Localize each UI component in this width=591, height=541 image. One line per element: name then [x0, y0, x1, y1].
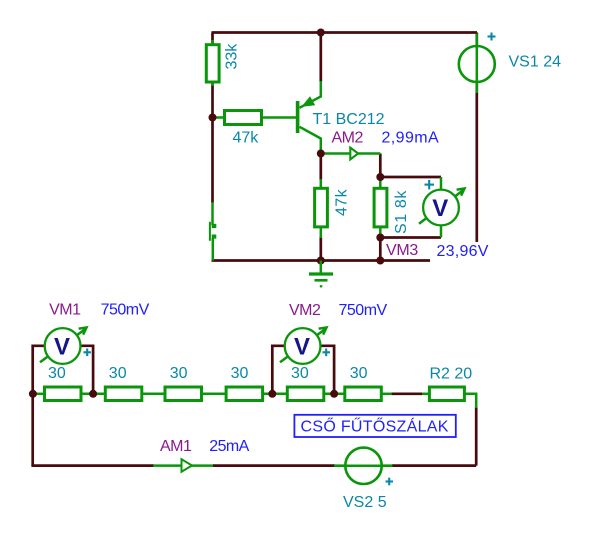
svg-text:AM2: AM2	[332, 130, 364, 147]
wire between resistor 1 and resistor 2	[81, 393, 106, 396]
node bottom left junction	[29, 390, 37, 398]
resistor R 47k vertical	[315, 188, 351, 227]
wire VM2 left branch	[272, 346, 285, 394]
wire voltmeter VM3 top lead	[440, 177, 443, 192]
svg-text:V: V	[294, 334, 310, 361]
wire AM2 corner down	[379, 154, 382, 181]
wire below 47k vertical resistor	[319, 237, 322, 261]
wire collector to node maroon	[319, 155, 322, 181]
node S1 top junction	[376, 173, 384, 181]
wire before resistor R2	[421, 393, 430, 396]
wire right vertical green top	[464, 394, 476, 408]
svg-text:30: 30	[109, 365, 127, 382]
svg-text:VS2 5: VS2 5	[343, 494, 387, 511]
wire below S1	[379, 236, 382, 261]
ammeter AM1	[160, 438, 250, 472]
svg-text:2,99mA: 2,99mA	[382, 130, 440, 147]
resistor 30 fifth	[287, 365, 324, 401]
svg-text:30: 30	[291, 365, 309, 382]
node S1 rail junction	[376, 257, 384, 265]
svg-text:23,96V: 23,96V	[437, 243, 489, 260]
node VM2 left junction	[268, 390, 276, 398]
wire between resistor 3 and resistor 4	[201, 393, 227, 396]
resistor R 33k	[206, 43, 240, 82]
svg-text:47k: 47k	[233, 130, 260, 147]
wire node A to first resistor	[33, 393, 45, 396]
wire S1 bottom lead	[379, 225, 382, 238]
voltage source VS1	[459, 33, 561, 94]
svg-text:V: V	[432, 195, 448, 222]
wire left vertical middle	[211, 81, 214, 203]
transistor T1 BC212	[296, 96, 385, 133]
wire right vertical maroon	[475, 407, 478, 466]
wire VS2 green lead	[334, 464, 393, 467]
wire bottom rail right maroon	[392, 464, 476, 467]
wire left vertical upper	[211, 33, 214, 47]
wire VM1 right branch	[81, 346, 94, 394]
wire 47k vertical top lead	[320, 179, 323, 190]
node S1 bottom junction	[376, 234, 384, 242]
svg-text:AM1: AM1	[160, 438, 192, 455]
resistor 30 sixth	[345, 365, 382, 401]
node collector junction	[317, 150, 325, 158]
svg-text:33k: 33k	[224, 43, 241, 70]
voltmeter VM3 meter symbol	[386, 180, 489, 260]
node top rail junction	[317, 29, 325, 37]
ammeter AM2 arrow symbol	[332, 130, 440, 160]
wire 47k vertical bottom lead	[320, 225, 323, 238]
wire 33k resistor top lead	[211, 40, 214, 46]
svg-text:R2 20: R2 20	[430, 366, 473, 383]
resistor 30 fourth	[226, 365, 263, 401]
wire top rail	[212, 31, 478, 34]
wire collector lead green	[300, 127, 321, 155]
wire right vertical from VS1 down	[475, 33, 478, 243]
wire S1 top lead	[379, 179, 382, 190]
svg-text:T1 BC212: T1 BC212	[313, 111, 385, 128]
wire bottom rail middle maroon	[213, 464, 335, 467]
svg-text:25mA: 25mA	[209, 438, 249, 455]
wire left branch of bottom circuit	[33, 346, 45, 466]
resistor 30 first	[45, 365, 82, 401]
svg-text:30: 30	[170, 365, 188, 382]
voltage source VS2	[334, 448, 393, 511]
wire 33k resistor bottom lead	[211, 80, 214, 86]
resistor R2 20	[429, 366, 472, 401]
wire voltmeter top branch	[380, 176, 441, 179]
wire emitter vertical maroon	[319, 33, 322, 83]
wire base lead green left	[214, 116, 225, 119]
svg-text:VM1: VM1	[49, 302, 81, 319]
node ground junction	[317, 257, 325, 265]
wire base lead green right	[261, 116, 296, 119]
wire plain maroon segment between R6 and R2	[392, 392, 422, 395]
voltmeter VM2	[280, 302, 388, 364]
node VM1 right junction	[89, 390, 97, 398]
ground	[309, 261, 333, 287]
wire emitter lead green	[300, 81, 321, 108]
wire voltmeter bottom branch	[380, 236, 441, 239]
svg-text:30: 30	[350, 365, 368, 382]
wire AM1 green segment	[153, 464, 214, 467]
node VM2 right junction	[330, 390, 338, 398]
svg-text:30: 30	[48, 365, 66, 382]
svg-text:V: V	[54, 334, 70, 361]
wire bottom rail left maroon	[31, 464, 154, 467]
svg-text:750mV: 750mV	[339, 302, 388, 319]
wire bottom rail of top circuit	[212, 259, 431, 262]
svg-text:VS1 24: VS1 24	[509, 54, 562, 71]
svg-text:VM2: VM2	[289, 302, 321, 319]
voltmeter VM1	[40, 302, 150, 364]
resistor S1 8k	[374, 188, 410, 234]
wire AM2 horizontal green	[321, 152, 381, 155]
wire between resistor 5 and resistor 6	[322, 393, 345, 396]
svg-text:CSŐ FŰTŐSZÁLAK: CSŐ FŰTŐSZÁLAK	[301, 417, 449, 436]
switch	[210, 202, 216, 261]
svg-text:30: 30	[231, 365, 249, 382]
svg-text:47k: 47k	[334, 188, 351, 216]
wire voltmeter VM3 bottom lead	[440, 223, 443, 238]
wire VM2 right branch	[321, 346, 335, 394]
resistor R 47k base	[225, 111, 262, 147]
svg-text:750mV: 750mV	[101, 302, 150, 319]
resistor 30 third	[165, 365, 202, 401]
svg-text:VM3: VM3	[386, 242, 418, 259]
node base junction	[209, 114, 217, 122]
wire between resistor 2 and resistor 3	[141, 393, 165, 396]
label CSO FUTOSZALAK box	[294, 415, 455, 437]
svg-text:S1 8k: S1 8k	[393, 190, 410, 234]
wire after resistor 6	[381, 393, 393, 396]
resistor 30 second	[105, 365, 142, 401]
wire between resistor 4 and resistor 5	[262, 393, 288, 396]
